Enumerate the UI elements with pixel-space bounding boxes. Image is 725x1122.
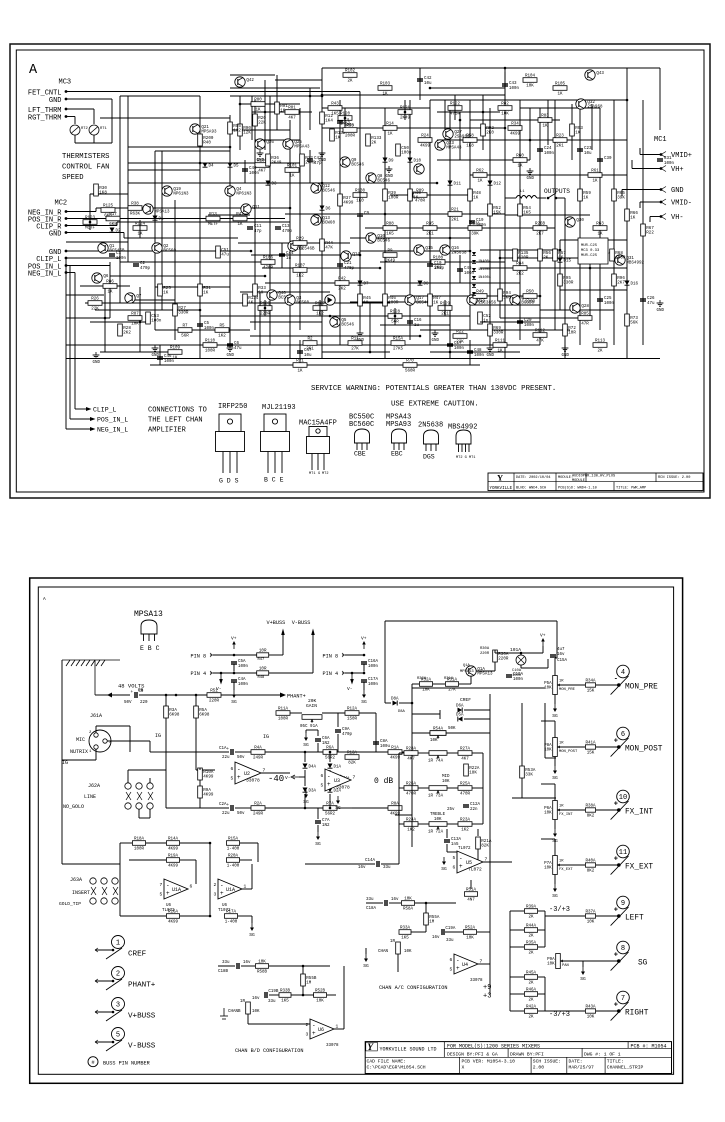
wire: [165, 752, 167, 808]
resistor C53: [146, 312, 162, 324]
svg-text:1K: 1K: [163, 292, 169, 296]
svg-text:10K: 10K: [258, 961, 266, 965]
wire: [304, 770, 306, 786]
wire: [554, 820, 556, 830]
wire: [337, 734, 339, 752]
svg-text:10K: 10K: [434, 818, 442, 822]
svg-text:R47: R47: [433, 297, 441, 301]
svg-text:MAR/25/97: MAR/25/97: [569, 1065, 595, 1071]
svg-text:DGS: DGS: [423, 454, 435, 461]
svg-text:-: -: [166, 882, 170, 889]
wire: [411, 765, 413, 847]
wire: [504, 72, 506, 100]
resistor R12: [320, 112, 334, 124]
resistor R125: [101, 205, 115, 219]
wire: [230, 87, 320, 89]
svg-text:R58B: R58B: [257, 971, 268, 975]
wire: [545, 1010, 585, 1012]
svg-text:U1A: U1A: [172, 887, 181, 893]
wire: [127, 96, 129, 262]
wire: [337, 807, 352, 809]
svg-text:BC560C: BC560C: [349, 421, 374, 429]
svg-text:R33A: R33A: [400, 927, 411, 931]
capacitor C46: [157, 355, 175, 364]
junction: [321, 182, 324, 185]
svg-text:33u: 33u: [222, 961, 230, 965]
capacitor C43: [502, 82, 520, 91]
capacitor C20: [517, 319, 535, 328]
wire: [305, 730, 307, 733]
resistor R71: [293, 360, 307, 374]
svg-text:470R: 470R: [263, 267, 274, 271]
wire: [538, 946, 545, 948]
wire: [384, 108, 386, 359]
wire: [339, 100, 341, 345]
svg-text:NP61N3: NP61N3: [173, 193, 189, 197]
svg-text:D4A: D4A: [309, 766, 317, 770]
svg-text:1K8: 1K8: [466, 145, 474, 149]
wire: [208, 214, 250, 216]
wire: [472, 787, 483, 789]
wire: [596, 864, 620, 866]
svg-text:C24: C24: [544, 147, 552, 151]
wire: [317, 825, 319, 832]
svg-text:16v: 16v: [432, 936, 440, 940]
svg-text:C4A: C4A: [238, 678, 246, 682]
wire: [61, 660, 63, 864]
wire: [480, 249, 560, 251]
svg-text:MODULE: MODULE: [572, 479, 585, 483]
svg-text:E B C: E B C: [140, 645, 160, 652]
pin dot GND: [65, 98, 68, 101]
wire: [397, 954, 399, 972]
svg-text:R61: R61: [591, 170, 599, 174]
junction: [304, 751, 307, 754]
svg-text:470p: 470p: [282, 230, 293, 234]
wire: [596, 915, 620, 917]
svg-text:1R: 1R: [559, 680, 564, 684]
wire: [591, 104, 593, 150]
svg-text:47p: 47p: [254, 230, 262, 234]
wire: [345, 672, 364, 674]
wire: [337, 751, 352, 753]
node 7: [617, 991, 630, 1004]
svg-text:2K49: 2K49: [475, 301, 486, 305]
wire: [199, 768, 201, 770]
wire: [510, 993, 524, 995]
capacitor C26: [640, 297, 655, 306]
svg-text:MON_POST: MON_POST: [559, 750, 578, 754]
power V+: [361, 636, 367, 650]
wire: [412, 713, 440, 715]
svg-text:R2: R2: [307, 338, 313, 342]
svg-text:R104: R104: [525, 75, 536, 79]
wire: [430, 87, 505, 89]
wire: [233, 683, 235, 691]
svg-text:R73: R73: [630, 317, 638, 321]
svg-text:MON_POST: MON_POST: [625, 745, 663, 753]
svg-text:MPSA93: MPSA93: [386, 421, 411, 429]
svg-text:R52: R52: [493, 207, 501, 211]
wire: [560, 809, 585, 811]
svg-text:10K: 10K: [544, 749, 552, 753]
svg-text:MPSA13: MPSA13: [154, 211, 170, 215]
svg-text:SG: SG: [361, 699, 367, 705]
svg-text:SG: SG: [441, 866, 447, 872]
wire: [119, 96, 121, 303]
diode D16: [625, 281, 630, 286]
transistor Q28: [570, 303, 590, 313]
svg-text:MC3: MC3: [59, 79, 72, 87]
svg-text:C26: C26: [647, 297, 655, 301]
wire: [251, 254, 360, 256]
svg-text:U2: U2: [244, 771, 250, 777]
resistor R2A: [251, 803, 265, 817]
wire: [398, 753, 400, 824]
wire: [395, 814, 412, 816]
junction: [394, 315, 397, 318]
wire: [399, 787, 404, 789]
ground SG: [580, 967, 586, 982]
svg-text:MON_PRE: MON_PRE: [559, 688, 576, 692]
wire: [330, 315, 470, 317]
wire: [520, 653, 522, 655]
wire: [66, 257, 120, 259]
wire: [556, 621, 558, 658]
resistor R120: [338, 113, 352, 127]
svg-text:V-: V-: [347, 686, 353, 692]
wire: [398, 824, 400, 864]
wire: [390, 295, 540, 297]
svg-text:+: +: [220, 890, 224, 897]
svg-text:MPSA13: MPSA13: [477, 673, 493, 677]
svg-text:470R: 470R: [406, 793, 417, 797]
svg-text:PIN 8: PIN 8: [323, 654, 339, 660]
svg-text:-: -: [459, 855, 463, 862]
capacitor C5: [197, 322, 215, 331]
wire: [596, 684, 620, 686]
wire: [154, 151, 156, 330]
svg-text:16v: 16v: [557, 653, 565, 657]
resistor R33B: [279, 990, 291, 1004]
transistor Q11: [241, 204, 261, 214]
resistor R24A: [404, 819, 418, 833]
junction: [329, 315, 332, 318]
svg-text:10: 10: [619, 794, 627, 802]
svg-text:PIN 4: PIN 4: [191, 671, 207, 677]
wire: [505, 197, 516, 199]
junction: [617, 808, 621, 812]
resistor R17A: [225, 911, 238, 925]
junction: [250, 250, 253, 253]
ground SG: [315, 832, 321, 847]
svg-text:+: +: [614, 856, 618, 864]
svg-text:C43: C43: [509, 82, 517, 86]
resistor R112: [533, 330, 547, 344]
svg-text:FX_EXT: FX_EXT: [625, 863, 653, 871]
wire: [420, 127, 505, 129]
wire: [510, 946, 524, 948]
wire: [128, 146, 230, 148]
resistor R13A: [345, 752, 359, 766]
pin dot VH+: [660, 167, 663, 170]
junction: [309, 95, 312, 98]
svg-text:39K: 39K: [471, 233, 479, 237]
resistor R7A: [323, 803, 337, 817]
pin stub: [210, 653, 213, 657]
svg-text:100R: 100R: [615, 257, 626, 261]
junction: [520, 652, 523, 655]
junction: [89, 221, 92, 224]
svg-text:CHAN B/D CONFIGURATION: CHAN B/D CONFIGURATION: [235, 1048, 304, 1054]
svg-text:1K: 1K: [557, 93, 563, 97]
wire: [444, 100, 446, 140]
resistor R102: [343, 70, 357, 84]
wire: [437, 227, 555, 229]
junction: [329, 751, 332, 754]
wire: [66, 428, 90, 430]
resistor R34A: [585, 680, 596, 694]
wire: [96, 725, 130, 727]
svg-text:1K: 1K: [203, 292, 209, 296]
svg-text:-40: -40: [268, 774, 284, 784]
resistor R40: [408, 189, 422, 201]
op-amp U2: [231, 762, 266, 784]
wire: [120, 915, 166, 917]
wire: [209, 843, 211, 916]
svg-text:SG: SG: [552, 713, 558, 719]
resistor R134: [243, 294, 259, 306]
svg-text:MPSA93: MPSA93: [201, 131, 217, 135]
svg-text:C53: C53: [151, 315, 159, 319]
svg-text:BC546: BC546: [377, 240, 390, 244]
svg-text:IG: IG: [263, 734, 269, 740]
svg-text:D8: D8: [424, 283, 430, 287]
wire: [264, 300, 266, 316]
pin stub VMID-: [661, 199, 666, 205]
svg-text:9: 9: [621, 900, 625, 908]
svg-text:R26B: R26B: [535, 223, 546, 227]
svg-text:C14A: C14A: [365, 859, 376, 863]
wire: [95, 980, 113, 982]
wire: [459, 255, 461, 283]
ground: [319, 150, 327, 163]
svg-text:15K: 15K: [587, 689, 595, 693]
resistor R57: [553, 249, 567, 261]
wire: [520, 139, 627, 141]
wire: [369, 302, 371, 352]
svg-text:10u: 10u: [424, 82, 432, 86]
resistor R131: [468, 223, 482, 237]
svg-text:C13: C13: [282, 225, 290, 229]
transistor Q32: [576, 99, 603, 110]
svg-text:100n: 100n: [509, 87, 520, 91]
svg-text:+: +: [614, 952, 618, 960]
ground SG: [249, 923, 255, 938]
svg-text:R83: R83: [541, 115, 549, 119]
svg-text:R43A: R43A: [585, 1006, 596, 1010]
svg-text:Q5: Q5: [341, 319, 347, 323]
svg-text:C19A: C19A: [445, 927, 456, 931]
capacitor C19A: [442, 927, 456, 935]
resistor R53: [343, 125, 357, 139]
wire: [430, 99, 560, 101]
wire: [165, 718, 167, 752]
diode D9: [383, 158, 388, 163]
wire: [252, 111, 312, 113]
wire: [95, 309, 200, 311]
svg-text:4N7: 4N7: [467, 899, 475, 903]
svg-text:R28A: R28A: [406, 748, 417, 752]
svg-text:R71: R71: [296, 360, 304, 364]
svg-text:330R: 330R: [493, 332, 504, 336]
resistor R60: [513, 155, 527, 169]
transistor Q: [143, 204, 170, 215]
svg-text:FX_INT: FX_INT: [625, 808, 653, 816]
resistor R15A: [227, 838, 240, 852]
svg-text:10K: 10K: [544, 867, 552, 871]
svg-text:PIN 4: PIN 4: [323, 671, 339, 677]
svg-text:R50: R50: [526, 291, 534, 295]
svg-text:CONTROL FAN: CONTROL FAN: [62, 164, 109, 172]
wire: [649, 217, 651, 223]
resistor R100: [255, 160, 269, 174]
wire: [394, 308, 396, 325]
resistor R37A: [585, 911, 596, 925]
svg-text:R13: R13: [209, 213, 217, 217]
svg-text:8K2: 8K2: [587, 814, 595, 818]
svg-text:R51A: R51A: [466, 889, 477, 893]
svg-text:R27A: R27A: [460, 748, 471, 752]
wire: [399, 702, 412, 704]
svg-text:10R: 10R: [259, 668, 267, 672]
svg-text:R10A: R10A: [203, 771, 214, 775]
svg-text:2: 2: [306, 1022, 309, 1028]
ground: [93, 352, 101, 365]
resistor R44: [320, 239, 334, 251]
svg-text:2K1: 2K1: [556, 145, 564, 149]
wire: [90, 193, 128, 195]
wire: [66, 272, 75, 274]
svg-text:Q19: Q19: [173, 188, 181, 192]
svg-text:5: 5: [231, 775, 234, 781]
wire: [482, 753, 484, 824]
svg-text:C17: C17: [454, 342, 462, 346]
svg-text:56R: 56R: [181, 335, 189, 339]
wire: [482, 95, 484, 150]
svg-text:1-400: 1-400: [225, 921, 238, 925]
svg-text:R37: R37: [343, 197, 351, 201]
diode D5A: [458, 717, 463, 722]
svg-text:NUTRIX: NUTRIX: [70, 749, 88, 755]
svg-text:VMID-: VMID-: [671, 200, 692, 208]
border frame outer: [30, 578, 683, 1083]
svg-text:8K2: 8K2: [587, 869, 595, 873]
svg-text:GND: GND: [49, 97, 62, 105]
arrow V-: [291, 775, 299, 779]
svg-text:D1A: D1A: [334, 766, 342, 770]
svg-text:1K: 1K: [237, 223, 243, 227]
svg-text:220R: 220R: [525, 301, 536, 305]
svg-text:R135: R135: [518, 252, 529, 256]
resistor R3A: [164, 706, 180, 718]
junction: [559, 249, 562, 252]
wire: [149, 809, 151, 818]
svg-text:R43: R43: [331, 103, 339, 107]
wire: [251, 864, 253, 889]
wire: [559, 240, 561, 310]
svg-text:C20: C20: [524, 319, 532, 323]
junction: [321, 94, 324, 97]
svg-text:D12: D12: [494, 183, 502, 187]
resistor R21A: [476, 837, 492, 849]
svg-text:1R 74A: 1R 74A: [428, 760, 444, 764]
svg-text:10K: 10K: [587, 1015, 595, 1019]
resistor R67: [641, 224, 655, 236]
capacitor C10: [427, 262, 445, 271]
thermistor RT1: [89, 125, 108, 135]
svg-text:82K: 82K: [481, 845, 489, 849]
ground: [562, 345, 570, 358]
power V+: [540, 633, 546, 647]
switch FX_EXT: [611, 856, 629, 875]
wire: [251, 916, 253, 923]
svg-text:P5A: P5A: [544, 682, 552, 686]
wire: [343, 966, 345, 1029]
resistor R32: [300, 154, 316, 166]
svg-text:Q14: Q14: [352, 253, 360, 257]
capacitor C1: [109, 252, 127, 261]
svg-text:Q16: Q16: [451, 247, 459, 251]
resistor R46: [383, 294, 399, 306]
resistor R9: [383, 250, 397, 264]
wire: [402, 751, 412, 753]
wire: [213, 672, 257, 674]
svg-text:R30: R30: [99, 187, 107, 191]
svg-text:2K: 2K: [597, 350, 603, 354]
resistor R135: [513, 249, 529, 261]
capacitor C13A: [444, 838, 462, 847]
resistor R45A: [525, 972, 538, 986]
wire: [563, 960, 620, 962]
capacitor C25: [597, 297, 615, 306]
svg-text:2K2: 2K2: [123, 332, 131, 336]
resistor R200: [198, 134, 214, 146]
ground SG: [303, 790, 309, 805]
switch SG: [611, 952, 629, 971]
wire: [180, 842, 210, 844]
potentiometer P7A: [544, 856, 561, 875]
ground SG: [552, 704, 558, 719]
svg-text:2K2: 2K2: [516, 273, 524, 277]
buss pin number symbol: [88, 1057, 98, 1067]
resistor R80: [251, 99, 265, 113]
svg-text:METF: METF: [208, 223, 219, 227]
ground SG: [363, 954, 369, 969]
wire: [494, 650, 496, 653]
svg-text:R18A: R18A: [134, 838, 145, 842]
junction: [617, 683, 621, 687]
wire: [555, 657, 557, 659]
transistor Q27: [443, 129, 470, 140]
resistor R82: [498, 103, 512, 117]
svg-text:R7: R7: [182, 325, 188, 329]
svg-text:C2A: C2A: [219, 803, 227, 807]
capacitor C11: [247, 225, 262, 234]
svg-text:1K: 1K: [630, 217, 636, 221]
svg-text:+: +: [614, 801, 618, 809]
svg-text:V-: V-: [285, 775, 291, 781]
